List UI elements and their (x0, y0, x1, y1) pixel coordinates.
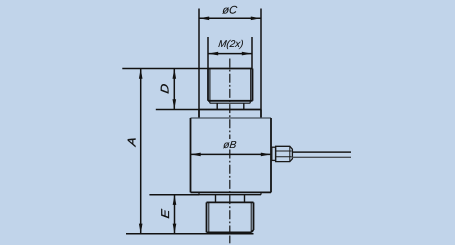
svg-text:øB: øB (223, 140, 238, 151)
svg-text:A: A (126, 136, 139, 148)
svg-text:D: D (158, 83, 171, 94)
svg-text:M(2x): M(2x) (218, 39, 244, 50)
svg-text:øC: øC (222, 4, 239, 16)
